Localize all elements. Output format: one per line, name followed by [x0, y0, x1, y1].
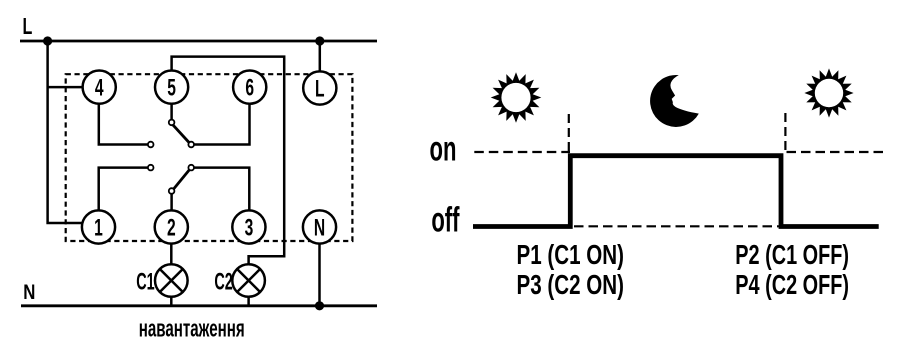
wire from L bus to terminal L — [319, 41, 322, 72]
svg-text:L: L — [23, 14, 33, 39]
junction dot on N bus — [315, 301, 324, 310]
switch lever lower (2 to 3) — [173, 169, 190, 189]
svg-text:L: L — [315, 76, 325, 102]
sun icon right — [804, 68, 853, 117]
svg-text:6: 6 — [245, 75, 254, 101]
svg-text:3: 3 — [245, 215, 254, 241]
svg-text:on: on — [430, 131, 457, 169]
dashed marker line right (sunrise) — [784, 113, 786, 155]
wire terminal 4 to upper-left contact — [99, 103, 148, 145]
svg-text:5: 5 — [167, 75, 176, 101]
wire from terminal 5 over to lamp C2 — [172, 57, 285, 265]
svg-text:C1: C1 — [136, 269, 154, 296]
terminal 5 — [155, 71, 188, 104]
dashed off-level line under pulse — [574, 225, 779, 227]
terminal 2 — [155, 210, 188, 243]
terminal 1 — [82, 210, 115, 243]
wire from L bus down left side to terminal 1 — [48, 41, 82, 223]
wire terminal 2 to lamp C1 — [170, 244, 173, 265]
moon icon — [650, 75, 699, 127]
contact circle lower hinge — [169, 188, 175, 194]
sun icon left — [491, 72, 542, 123]
svg-text:навантаження: навантаження — [139, 316, 245, 342]
terminal 4 — [83, 71, 116, 104]
wire N bus — [21, 304, 377, 307]
terminal 3 — [232, 210, 265, 243]
wire terminal 5 to upper hinge — [170, 103, 173, 120]
terminal N — [303, 210, 336, 243]
lamp C1 — [155, 264, 188, 297]
wire upper-right contact to terminal 6 — [194, 104, 250, 145]
wire branch to terminal 4 — [48, 86, 84, 89]
waveform pulse — [473, 156, 879, 227]
wire lamp C1 to N bus — [170, 297, 173, 306]
wire lower-right contact to terminal 3 — [194, 168, 249, 211]
wire terminal N to N bus — [318, 244, 321, 306]
wire lower hinge to terminal 2 — [170, 194, 173, 211]
svg-text:1: 1 — [94, 215, 103, 241]
svg-text:N: N — [23, 281, 35, 304]
terminal L — [303, 71, 336, 104]
lamp C2 — [232, 264, 265, 297]
dashed enclosure box — [66, 74, 353, 241]
svg-text:2: 2 — [167, 215, 176, 241]
junction dot left on L bus — [43, 36, 52, 45]
switch lever upper (5 to 6) — [173, 125, 190, 143]
svg-text:N: N — [314, 215, 325, 241]
svg-text:P1 (C1 ON): P1 (C1 ON) — [517, 240, 624, 271]
dashed on-level line left segment — [474, 151, 570, 153]
contact circle upper hinge — [169, 120, 175, 126]
svg-text:P3 (C2 ON): P3 (C2 ON) — [517, 270, 624, 301]
terminal 6 — [233, 71, 266, 104]
contact circle upper-right — [188, 142, 194, 148]
wire lower-left contact to terminal 1 — [99, 168, 148, 211]
wire L bus — [20, 40, 377, 43]
wire lamp C2 to N bus — [247, 297, 250, 306]
svg-text:P4 (C2 OFF): P4 (C2 OFF) — [735, 270, 849, 301]
dashed on-level line right segment — [787, 151, 889, 153]
junction dot right on L bus — [315, 36, 324, 45]
svg-text:4: 4 — [95, 75, 104, 101]
svg-text:off: off — [431, 201, 459, 239]
dashed marker line left (sunset) — [568, 114, 570, 153]
svg-text:C2: C2 — [214, 269, 232, 296]
contact circle lower-left — [148, 165, 154, 171]
contact circle lower-right — [188, 165, 194, 171]
svg-text:P2 (C1 OFF): P2 (C1 OFF) — [735, 240, 849, 271]
contact circle upper-left — [148, 142, 154, 148]
